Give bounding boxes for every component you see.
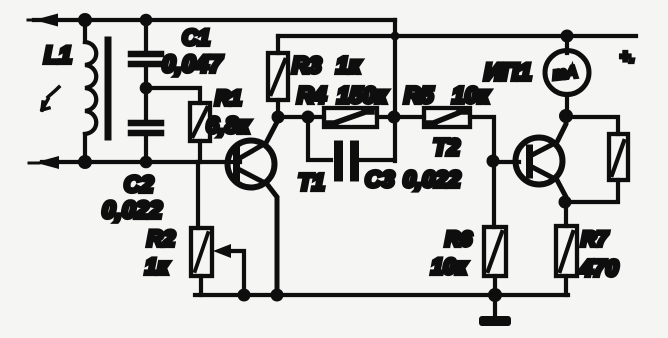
svg-text:L1: L1 — [44, 42, 72, 69]
meter IP1 — [545, 36, 589, 117]
arrow input top — [34, 14, 58, 27]
svg-text:С1: С1 — [182, 25, 210, 50]
wire R2 bottom lead — [199, 276, 203, 295]
node L1 bottom — [78, 155, 92, 169]
node emitter T1 bottom — [271, 289, 284, 302]
wire top rail — [34, 18, 395, 22]
wire base column to R2 — [196, 162, 200, 228]
resistor R3 — [268, 36, 288, 117]
wire input bottom line — [42, 160, 240, 164]
potentiometer R2 — [191, 228, 212, 276]
svg-text:С3: С3 — [365, 166, 395, 192]
wire base column to R6 — [492, 162, 496, 227]
ground — [479, 295, 511, 326]
core of L1 — [105, 40, 112, 137]
resistor R8 load — [566, 117, 628, 202]
node cap bottom — [140, 156, 153, 169]
svg-text:150к: 150к — [337, 82, 388, 108]
svg-text:R4: R4 — [297, 82, 327, 108]
wire C1 to C2 — [144, 67, 148, 120]
node bus rail2 — [391, 32, 400, 41]
capacitor C3 — [308, 117, 394, 177]
wire collector row — [278, 115, 324, 119]
node cap top — [140, 14, 153, 27]
svg-text:1к: 1к — [336, 52, 362, 78]
svg-text:0,047: 0,047 — [162, 51, 224, 78]
wire vertical bus x395 — [393, 20, 397, 161]
arrow input bottom — [35, 156, 59, 169]
node bus crossing — [388, 111, 401, 124]
node meter bottom — [559, 109, 573, 123]
wire emitter to R7 — [564, 202, 568, 226]
svg-text:С2: С2 — [124, 171, 154, 197]
resistor R4 — [324, 108, 377, 127]
node collector T1 — [272, 111, 285, 124]
svg-text:R2: R2 — [147, 226, 176, 251]
svg-text:R7: R7 — [581, 228, 609, 251]
svg-text:R1: R1 — [215, 87, 242, 110]
node meter top — [561, 30, 574, 43]
wire bottom rail — [195, 293, 568, 297]
node ground — [488, 288, 502, 302]
wire C2 to bottom — [144, 136, 148, 162]
svg-text:0,022: 0,022 — [403, 166, 461, 192]
svg-text:mA: mA — [552, 64, 578, 83]
capacitor C1 — [131, 54, 161, 64]
node cap mid — [140, 82, 153, 95]
svg-text:R6: R6 — [445, 228, 472, 251]
resistor R6 — [484, 227, 506, 295]
svg-text:10к: 10к — [431, 254, 468, 279]
wire second top rail — [278, 34, 636, 38]
resistor R5 — [424, 108, 470, 127]
svg-text:ИП1: ИП1 — [484, 59, 532, 86]
node wiper bottom — [238, 289, 251, 302]
wiper arrow R2 — [213, 244, 244, 295]
node L1 top — [78, 13, 92, 27]
svg-text:Т1: Т1 — [298, 169, 325, 195]
input squiggle arrow — [42, 87, 59, 110]
resistor R7 — [556, 226, 577, 295]
wire R1 bottom — [198, 141, 202, 162]
wire R4 to R5 — [377, 115, 424, 119]
node emitter T2 — [559, 196, 572, 209]
svg-text:1к: 1к — [145, 254, 170, 279]
svg-text:R3: R3 — [292, 52, 322, 78]
resistor R1 — [190, 103, 210, 141]
inductor L1 — [85, 20, 96, 162]
wire cap mid to R1 — [146, 88, 200, 103]
wire capacitor column — [144, 20, 148, 51]
svg-text:6,8к: 6,8к — [206, 112, 251, 138]
svg-text:0,022: 0,022 — [102, 197, 163, 224]
capacitor C2 — [131, 123, 161, 133]
node C3 branch — [302, 111, 315, 124]
transistor T1 — [228, 117, 278, 295]
svg-text:+.: +. — [620, 47, 635, 66]
svg-text:Т2: Т2 — [433, 134, 460, 160]
node T2 base column — [487, 155, 500, 168]
svg-text:470: 470 — [579, 255, 619, 281]
wire R5 to T2 base — [470, 117, 519, 162]
transistor T2 — [516, 118, 567, 202]
svg-text:R5: R5 — [404, 82, 435, 108]
